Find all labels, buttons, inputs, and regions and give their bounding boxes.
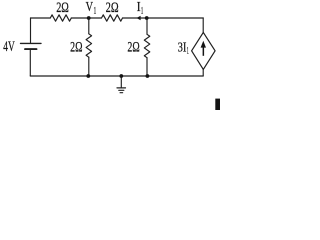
wire bottom: [30, 75, 203, 77]
svg-text:1: 1: [187, 46, 189, 57]
svg-text:4V: 4V: [3, 39, 15, 55]
resistor R1 2ohm vertical-left: upper lead: [88, 18, 90, 34]
svg-text:1: 1: [94, 6, 97, 17]
node dot bottom at ground: [119, 74, 123, 78]
wire top-right segment: [123, 17, 204, 19]
ground bar 3: [120, 92, 123, 94]
wire right vertical lower: [202, 69, 204, 76]
dependent current source U1 diamond: [192, 32, 216, 69]
wire left vertical upper: [30, 18, 32, 43]
ground bar 1: [117, 87, 126, 89]
current direction arrow I1 on top wire pointing left: [137, 16, 141, 21]
node dot top V1: [87, 16, 91, 20]
battery V1 4V top plate: [21, 42, 42, 44]
svg-text:V: V: [86, 0, 94, 14]
ground bar 2: [119, 89, 124, 91]
resistor R1 2ohm vertical-left zigzag: [86, 34, 92, 57]
svg-text:3I: 3I: [178, 40, 187, 55]
node dot top I1: [145, 16, 149, 20]
resistor Ra 2ohm top-left zigzag: [50, 15, 71, 21]
arrow inside dependent source pointing up: [203, 46, 205, 56]
resistor Rb 2ohm top-right zigzag: [102, 15, 123, 21]
svg-text:2Ω: 2Ω: [127, 39, 139, 55]
ground stub wire: [120, 76, 122, 87]
svg-text:2Ω: 2Ω: [70, 39, 82, 55]
resistor R2 2ohm vertical-right: upper lead: [146, 18, 148, 34]
wire left vertical lower: [29, 50, 31, 76]
resistor R2 2ohm vertical-right zigzag: [144, 34, 150, 57]
wire top-left segment: [31, 17, 51, 19]
wire right vertical upper: [202, 18, 204, 33]
svg-text:1: 1: [141, 6, 144, 17]
resistor R2 lower lead: [146, 58, 148, 76]
node dot bottom below R1: [86, 74, 90, 78]
svg-text:2Ω: 2Ω: [106, 0, 119, 16]
page corner black mark: [215, 99, 220, 110]
wire top-middle segment: [71, 17, 101, 19]
node dot bottom below R2: [146, 74, 150, 78]
battery V1 4V bottom plate: [25, 48, 37, 50]
resistor R1 lower lead: [88, 57, 90, 76]
svg-text:2Ω: 2Ω: [56, 0, 69, 16]
